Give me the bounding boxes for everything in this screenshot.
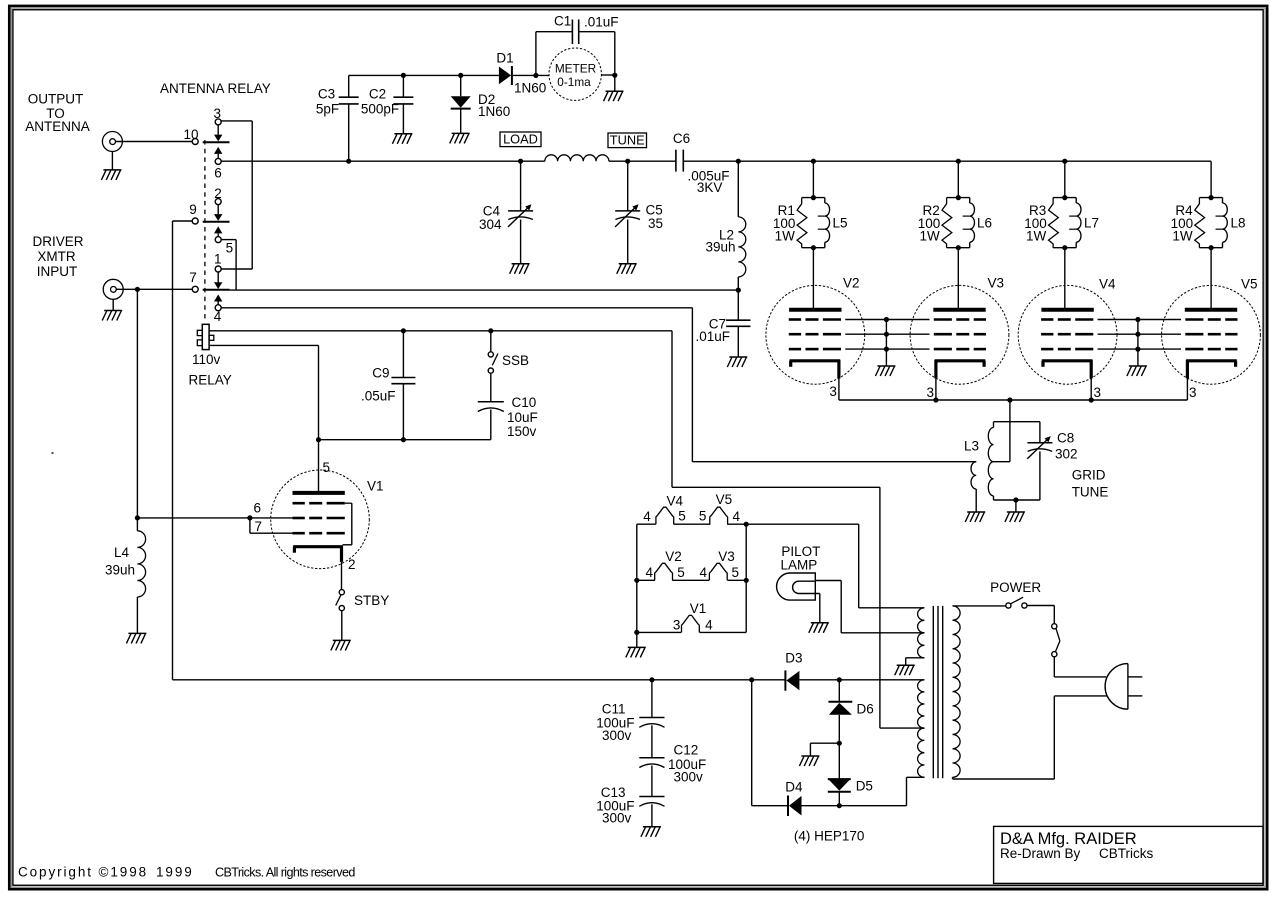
label R3 100 1W bbox=[1024, 203, 1047, 243]
connector J2 driver xmtr input bbox=[103, 279, 123, 299]
label C2 500pF bbox=[361, 87, 399, 117]
wire filament row2 bbox=[637, 579, 746, 581]
svg-text:2: 2 bbox=[348, 557, 356, 572]
pilot lamp bbox=[777, 573, 820, 600]
tube V1 bbox=[271, 470, 370, 569]
label D5 bbox=[856, 778, 873, 793]
wire bbox=[1064, 248, 1066, 310]
wire bbox=[745, 524, 747, 632]
label TUNE bbox=[608, 132, 647, 147]
capacitor C8 302 variable bbox=[1027, 422, 1052, 500]
label D4 bbox=[785, 780, 803, 795]
svg-text:V1: V1 bbox=[690, 601, 707, 616]
resistor R2 100 1W with inductor L6 bbox=[942, 195, 975, 250]
svg-text:LAMP: LAMP bbox=[781, 558, 818, 573]
node R2 top junction bbox=[956, 159, 961, 164]
svg-text:ANTENNA: ANTENNA bbox=[25, 119, 90, 134]
capacitor C7 bbox=[726, 290, 750, 357]
wire bbox=[1210, 248, 1212, 310]
wire bbox=[751, 680, 753, 806]
relay contact 5 bbox=[215, 237, 233, 256]
node bbox=[744, 578, 749, 583]
wire grid bus V4-V5 bbox=[1098, 317, 1181, 366]
wire bbox=[1054, 657, 1106, 677]
svg-text:C12: C12 bbox=[674, 743, 699, 758]
label GRID TUNE bbox=[1072, 468, 1109, 500]
label V2 pins bbox=[645, 549, 684, 580]
wire bbox=[209, 331, 924, 728]
svg-text:3: 3 bbox=[829, 384, 837, 399]
svg-text:V5: V5 bbox=[716, 492, 733, 507]
svg-text:4: 4 bbox=[645, 565, 653, 580]
svg-text:CBTricks. All rights reserved: CBTricks. All rights reserved bbox=[215, 865, 355, 879]
svg-text:6: 6 bbox=[214, 166, 222, 181]
relay contact 3 bbox=[214, 106, 222, 135]
relay pole 3 moving contact bbox=[203, 282, 230, 305]
relay pin 7 bbox=[189, 270, 198, 293]
wire bbox=[173, 220, 193, 222]
svg-text:1999: 1999 bbox=[156, 864, 194, 879]
title block bbox=[994, 826, 1263, 883]
label L2 39uh bbox=[705, 228, 735, 255]
svg-text:5: 5 bbox=[226, 240, 234, 255]
label V4 bbox=[1099, 277, 1116, 292]
ground bbox=[626, 632, 646, 657]
wire bbox=[810, 743, 839, 755]
transformer T1 filament winding bbox=[918, 608, 925, 633]
svg-text:LOAD: LOAD bbox=[503, 131, 538, 146]
capacitor C13 100uF 300v bbox=[639, 797, 664, 827]
ground bbox=[101, 152, 121, 180]
svg-text:V4: V4 bbox=[1099, 277, 1116, 292]
svg-text:5pF: 5pF bbox=[316, 102, 339, 117]
wire bbox=[137, 517, 292, 519]
label D3 bbox=[785, 650, 802, 665]
node bbox=[634, 630, 639, 635]
label D2 1N60 bbox=[478, 92, 510, 119]
node C1 left junction bbox=[533, 73, 538, 78]
node bbox=[837, 741, 842, 746]
ground bbox=[604, 75, 624, 101]
label D1 bbox=[496, 50, 513, 65]
wire bbox=[815, 581, 924, 633]
svg-text:1W: 1W bbox=[1026, 229, 1047, 244]
wire bbox=[172, 221, 174, 680]
label V3 bbox=[988, 276, 1005, 291]
wire grid bus V2-V3 bbox=[845, 317, 929, 366]
node C3 top bbox=[0, 0, 1, 1]
ground bbox=[126, 633, 146, 643]
label C11 bbox=[596, 701, 634, 743]
label V5 pins bbox=[699, 492, 741, 524]
capacitor C3 bbox=[339, 75, 359, 161]
label C4 304 bbox=[479, 203, 502, 232]
label V3 pins bbox=[700, 549, 740, 580]
tube V4 bbox=[1018, 285, 1117, 384]
svg-text:.05uF: .05uF bbox=[361, 389, 396, 404]
label L7 bbox=[1084, 215, 1099, 230]
wire bbox=[116, 141, 193, 143]
relay pole 1 moving contact bbox=[203, 135, 230, 159]
inductor L3 primary bbox=[971, 462, 976, 512]
label R1 100 1W bbox=[773, 203, 796, 243]
label (4) HEP170 bbox=[794, 828, 865, 843]
relay armature dashed link bbox=[204, 140, 206, 322]
label V4 pins bbox=[643, 494, 686, 524]
svg-text:METER: METER bbox=[555, 61, 596, 75]
label C8 302 bbox=[1055, 430, 1078, 461]
ground bbox=[965, 512, 985, 522]
svg-text:4: 4 bbox=[705, 618, 713, 633]
wire filament row3 bbox=[637, 631, 746, 633]
svg-text:300v: 300v bbox=[602, 728, 632, 743]
inductor L2 39uh bbox=[738, 161, 746, 290]
wire bbox=[1210, 161, 1212, 197]
svg-text:3: 3 bbox=[926, 385, 934, 400]
node bbox=[247, 515, 252, 520]
wire bbox=[812, 161, 814, 197]
svg-text:C1: C1 bbox=[554, 13, 571, 28]
label pin 3 V2 bbox=[829, 384, 837, 399]
svg-text:5: 5 bbox=[323, 460, 331, 475]
transformer T1 lamp winding bbox=[918, 633, 925, 658]
svg-text:3: 3 bbox=[1094, 385, 1102, 400]
svg-text:1N60: 1N60 bbox=[514, 80, 546, 95]
svg-text:302: 302 bbox=[1055, 446, 1078, 461]
meter M1 0-1ma bbox=[549, 48, 601, 100]
label V1 pins bbox=[673, 601, 713, 632]
wire bbox=[906, 658, 925, 665]
wire bbox=[221, 160, 545, 162]
wire bbox=[319, 439, 491, 441]
relay contact 4 bbox=[214, 305, 222, 324]
wire bbox=[752, 805, 788, 807]
node bbox=[1013, 497, 1018, 502]
svg-text:C9: C9 bbox=[372, 366, 389, 381]
wire bbox=[957, 161, 959, 197]
node meter right junction bbox=[612, 73, 617, 78]
svg-text:V1: V1 bbox=[367, 478, 384, 493]
wire bbox=[221, 240, 236, 291]
svg-text:L8: L8 bbox=[1231, 215, 1246, 230]
svg-text:V5: V5 bbox=[1241, 277, 1258, 292]
label pin 5 V1 bbox=[323, 460, 331, 475]
svg-text:4: 4 bbox=[700, 565, 708, 580]
node C3 bottom junction bbox=[346, 159, 351, 164]
label L6 bbox=[977, 215, 992, 230]
inductor plate tank coil bbox=[545, 155, 609, 161]
wire tank top bbox=[994, 421, 1040, 423]
wire bbox=[136, 289, 138, 518]
node L2 bottom junction bbox=[736, 288, 741, 293]
wire bbox=[209, 345, 318, 439]
svg-text:C10: C10 bbox=[512, 395, 537, 410]
node C5 junction bbox=[625, 159, 630, 164]
svg-text:9: 9 bbox=[189, 202, 197, 217]
label L3 bbox=[964, 439, 979, 454]
wire bbox=[1186, 378, 1188, 400]
wire bbox=[609, 160, 676, 162]
svg-text:.01uF: .01uF bbox=[695, 329, 730, 344]
svg-text:150v: 150v bbox=[507, 424, 537, 439]
capacitor C5 variable bbox=[615, 161, 640, 263]
node R4 top junction bbox=[0, 0, 1, 1]
label 1N60 bbox=[514, 80, 546, 95]
ground bbox=[799, 756, 819, 766]
svg-text:7: 7 bbox=[189, 270, 197, 285]
svg-text:7: 7 bbox=[255, 519, 263, 534]
wire bbox=[230, 289, 739, 291]
ground bbox=[450, 133, 470, 143]
node R1 top junction bbox=[811, 159, 816, 164]
tube V2 bbox=[766, 285, 865, 384]
wire bbox=[953, 696, 1108, 779]
svg-text:POWER: POWER bbox=[990, 580, 1041, 595]
wire bbox=[318, 440, 320, 493]
capacitor C12 100uF 300v bbox=[639, 758, 664, 797]
label pin 7 V1 bbox=[255, 519, 263, 534]
svg-text:500pF: 500pF bbox=[361, 102, 399, 117]
svg-text:SSB: SSB bbox=[502, 353, 529, 368]
wire bbox=[341, 562, 343, 590]
filament V3 heater bbox=[709, 563, 727, 580]
ground bbox=[1005, 500, 1025, 522]
inductor L4 39uh bbox=[137, 518, 145, 633]
label V2 bbox=[843, 276, 860, 291]
diode D6 bbox=[828, 680, 852, 743]
connector J1 output to antenna bbox=[102, 132, 122, 152]
svg-text:.01uF: .01uF bbox=[584, 14, 619, 29]
wire bbox=[994, 400, 1010, 462]
svg-text:3: 3 bbox=[1189, 385, 1197, 400]
node bbox=[135, 515, 140, 520]
wire bbox=[173, 679, 786, 681]
label pin 3 V5 bbox=[1189, 385, 1197, 400]
label pin 6 V1 bbox=[254, 501, 262, 516]
wire bbox=[799, 679, 924, 681]
stray dot bbox=[52, 452, 54, 454]
svg-text:5: 5 bbox=[732, 565, 740, 580]
switch SSB bbox=[488, 331, 498, 402]
node bbox=[837, 803, 842, 808]
label C13 bbox=[596, 785, 634, 826]
svg-text:D1: D1 bbox=[496, 50, 513, 65]
svg-text:L3: L3 bbox=[964, 439, 979, 454]
diode D4 bbox=[788, 796, 802, 817]
switch STBY bbox=[336, 590, 345, 640]
svg-text:4: 4 bbox=[643, 509, 651, 524]
relay pin 10 bbox=[183, 127, 198, 145]
ground bbox=[809, 623, 829, 633]
svg-text:39uh: 39uh bbox=[705, 240, 735, 255]
node C9 top junction bbox=[401, 328, 406, 333]
resistor R1 100 1W with inductor L5 bbox=[797, 195, 830, 250]
svg-text:4: 4 bbox=[733, 509, 741, 524]
label D6 bbox=[857, 701, 874, 716]
ground bbox=[895, 665, 915, 675]
wire bbox=[1090, 378, 1092, 400]
capacitor C4 variable bbox=[508, 161, 533, 263]
label L4 39uh bbox=[105, 545, 135, 577]
switch POWER pole 1 bbox=[1006, 597, 1027, 608]
label C9 .05uF bbox=[361, 366, 396, 404]
svg-text:DRIVER: DRIVER bbox=[32, 234, 83, 249]
resistor R4 100 1W with inductor L8 bbox=[1195, 195, 1228, 250]
svg-text:304: 304 bbox=[479, 217, 502, 232]
svg-text:L6: L6 bbox=[977, 215, 992, 230]
label C12 bbox=[668, 743, 706, 785]
wire tank bottom bbox=[994, 499, 1040, 501]
svg-text:1N60: 1N60 bbox=[478, 104, 510, 119]
node D2 junction bbox=[458, 73, 463, 78]
node L2 top junction bbox=[736, 159, 741, 164]
node R3 top junction bbox=[1062, 159, 1067, 164]
switch POWER pole 2 bbox=[1052, 624, 1060, 657]
capacitor C6 bbox=[676, 150, 683, 172]
label pin 2 V1 bbox=[348, 557, 356, 572]
relay contact 1 bbox=[214, 251, 252, 282]
wire bbox=[349, 74, 499, 76]
filament V2 heater bbox=[655, 563, 673, 580]
node bbox=[316, 437, 321, 442]
svg-text:1W: 1W bbox=[1172, 229, 1193, 244]
svg-text:1: 1 bbox=[214, 251, 222, 266]
wire bbox=[513, 74, 549, 76]
tube V3 bbox=[910, 285, 1009, 384]
svg-text:10uF: 10uF bbox=[507, 410, 538, 425]
label L5 bbox=[833, 215, 848, 230]
inductor L3 secondary bbox=[988, 422, 993, 500]
node bbox=[744, 522, 749, 527]
svg-text:D6: D6 bbox=[857, 701, 874, 716]
ground bbox=[617, 264, 637, 274]
wire bbox=[1027, 606, 1054, 624]
label Re-Drawn By CBTricks bbox=[1000, 846, 1153, 861]
wire bbox=[601, 74, 614, 76]
wire bbox=[812, 248, 814, 310]
wire bbox=[636, 524, 638, 632]
ground bbox=[392, 134, 412, 144]
svg-text:300v: 300v bbox=[602, 811, 632, 826]
wire bbox=[819, 594, 821, 623]
label pin 3 V3 bbox=[926, 385, 934, 400]
wire bbox=[116, 288, 192, 290]
filament V4 heater bbox=[656, 507, 674, 524]
label copyright bbox=[18, 864, 355, 879]
label STBY bbox=[354, 593, 389, 608]
wire filament row1 bbox=[637, 523, 746, 525]
capacitor C9 .05uF bbox=[391, 331, 415, 440]
node C4 junction bbox=[518, 159, 523, 164]
svg-text:GRID: GRID bbox=[1072, 468, 1106, 483]
svg-text:3: 3 bbox=[673, 618, 681, 633]
svg-text:L5: L5 bbox=[833, 215, 848, 230]
relay coil K1 110v bbox=[197, 324, 214, 349]
svg-text:CBTricks: CBTricks bbox=[1099, 846, 1153, 861]
label OUTPUT TO ANTENNA bbox=[25, 92, 90, 135]
relay contact 2 bbox=[214, 186, 222, 215]
node D6 junction bbox=[837, 677, 842, 682]
svg-text:V3: V3 bbox=[988, 276, 1005, 291]
node C2 junction bbox=[401, 73, 406, 78]
label R4 100 1W bbox=[1171, 203, 1194, 243]
wire bbox=[907, 777, 925, 805]
svg-text:3KV: 3KV bbox=[697, 180, 723, 195]
label POWER bbox=[990, 580, 1041, 595]
svg-text:INPUT: INPUT bbox=[37, 264, 78, 279]
label C1 .01uF bbox=[554, 13, 619, 29]
svg-text:V3: V3 bbox=[718, 549, 735, 564]
transformer T1 primary winding bbox=[953, 606, 961, 777]
svg-text:V2: V2 bbox=[665, 549, 682, 564]
svg-text:RELAY: RELAY bbox=[189, 372, 232, 387]
label C5 35 bbox=[646, 202, 664, 231]
svg-text:C6: C6 bbox=[673, 131, 690, 146]
node bbox=[634, 578, 639, 583]
label ANTENNA RELAY bbox=[160, 81, 271, 96]
filament V1 heater bbox=[682, 615, 700, 632]
node bbox=[749, 677, 754, 682]
diode D2 bbox=[451, 75, 471, 133]
svg-text:35: 35 bbox=[648, 216, 663, 231]
svg-text:110v: 110v bbox=[192, 352, 221, 367]
svg-text:D5: D5 bbox=[856, 778, 873, 793]
svg-text:Re-Drawn By: Re-Drawn By bbox=[1000, 846, 1081, 861]
svg-text:4: 4 bbox=[214, 309, 222, 324]
label pin 3 V4 bbox=[1094, 385, 1102, 400]
transformer T1 core bbox=[933, 606, 942, 778]
svg-text:5: 5 bbox=[677, 565, 685, 580]
wire bbox=[838, 378, 840, 400]
wire bbox=[935, 378, 937, 400]
svg-text:C2: C2 bbox=[369, 87, 386, 102]
relay pin 9 bbox=[189, 202, 198, 224]
svg-text:C11: C11 bbox=[602, 701, 626, 716]
capacitor C10 10uF 150v bbox=[478, 402, 504, 440]
wire pin7 link bbox=[250, 518, 293, 533]
wire bbox=[802, 805, 907, 807]
ground bbox=[331, 640, 351, 650]
wire bbox=[221, 308, 976, 462]
svg-text:1W: 1W bbox=[775, 229, 796, 244]
svg-text:5: 5 bbox=[699, 509, 707, 524]
label V5 bbox=[1241, 277, 1258, 292]
ground bbox=[510, 264, 530, 274]
ground bbox=[641, 827, 661, 837]
svg-text:0-1ma: 0-1ma bbox=[557, 75, 591, 89]
node bbox=[401, 437, 406, 442]
capacitor C2 bbox=[393, 75, 413, 133]
label L8 bbox=[1231, 215, 1246, 230]
diode D5 bbox=[828, 743, 851, 806]
capacitor C1 bbox=[536, 20, 615, 76]
node bbox=[933, 397, 938, 402]
svg-text:D4: D4 bbox=[785, 780, 803, 795]
wire bbox=[957, 248, 959, 310]
svg-text:V4: V4 bbox=[667, 494, 684, 509]
transformer T1 HV winding bbox=[918, 680, 925, 778]
capacitor C11 100uF 300v bbox=[639, 680, 664, 758]
svg-text:L7: L7 bbox=[1084, 215, 1099, 230]
label V1 bbox=[367, 478, 384, 493]
label PILOT LAMP bbox=[781, 544, 821, 572]
svg-text:C3: C3 bbox=[318, 87, 335, 102]
svg-text:(4) HEP170: (4) HEP170 bbox=[794, 828, 865, 843]
node bbox=[1089, 397, 1094, 402]
relay pole 2 moving contact bbox=[203, 214, 230, 237]
label C10 10uF 150v bbox=[507, 395, 538, 439]
label DRIVER XMTR INPUT bbox=[32, 234, 83, 279]
